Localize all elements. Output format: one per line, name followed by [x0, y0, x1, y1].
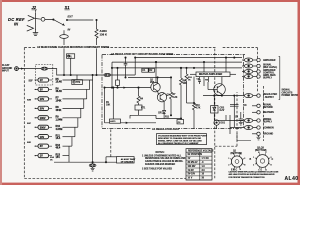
svg-text:1V: 1V [40, 79, 43, 82]
svg-text:A2 MAIN FRAME CHASSIS MOUNTED: A2 MAIN FRAME CHASSIS MOUNTED COMPONENT … [37, 45, 110, 49]
svg-text:2: 2 [228, 164, 229, 166]
svg-text:CR1: CR1 [158, 112, 163, 114]
svg-text:EXT: EXT [68, 14, 74, 18]
svg-text:S2F: S2F [29, 81, 34, 83]
svg-text:SIGNAL: SIGNAL [263, 64, 272, 67]
svg-text:FOR PROPER TRANSISTOR CONNECTI: FOR PROPER TRANSISTOR CONNECTION [229, 176, 266, 179]
svg-text:REGULATED: REGULATED [263, 93, 277, 96]
svg-text:1V: 1V [40, 155, 43, 158]
svg-text:S2B: S2B [27, 100, 32, 102]
svg-text:1: 1 [228, 158, 229, 160]
svg-text:3: 3 [244, 158, 245, 160]
svg-text:FARADS UNLESS MARKED: FARADS UNLESS MARKED [145, 163, 175, 166]
svg-text:A1 REGULATOR ASSY: A1 REGULATOR ASSY [152, 127, 180, 131]
svg-text:10V: 10V [40, 98, 45, 101]
svg-text:POWER DISTR: POWER DISTR [282, 95, 299, 97]
svg-text:RT1: RT1 [141, 108, 146, 110]
svg-text:(BOTTOM): (BOTTOM) [231, 153, 243, 155]
svg-text:2.2K: 2.2K [173, 97, 178, 99]
svg-text:A1 REGULATOR CKT CIRCUIT BOARD: A1 REGULATOR CKT CIRCUIT BOARD ASSY 0875… [111, 52, 174, 56]
svg-text:2: 2 [253, 164, 254, 166]
svg-text:OF CHASSIS: OF CHASSIS [121, 160, 134, 163]
svg-text:10V: 10V [40, 136, 45, 139]
svg-text:ALL READINGS TAKEN AT 25 C AMB: ALL READINGS TAKEN AT 25 C AMBIENT [158, 142, 199, 145]
svg-text:S2D: S2D [27, 142, 32, 144]
svg-text:VOLTAGES MEASURED WITH VTVM FR: VOLTAGES MEASURED WITH VTVM FROM POINT [158, 134, 207, 137]
svg-text:46.4K: 46.4K [56, 90, 63, 93]
svg-text:SUPPLY: SUPPLY [263, 122, 272, 124]
svg-text:1 UNLESS OTHERWISE NOTED ALL: 1 UNLESS OTHERWISE NOTED ALL [142, 154, 182, 157]
svg-text:AND LEAD POSITION AS SHOWN IN: AND LEAD POSITION AS SHOWN IN DIAGRAM AB… [229, 173, 276, 176]
svg-text:3V: 3V [40, 145, 43, 148]
svg-text:DS1: DS1 [221, 123, 226, 125]
svg-text:30V: 30V [40, 107, 45, 110]
svg-text:46.4: 46.4 [56, 147, 61, 150]
svg-text:CAUTION: WHEN REPLACING Q2 OBS: CAUTION: WHEN REPLACING Q2 OBSERVE COLOR… [229, 171, 280, 174]
svg-text:AMPLIFIER: AMPLIFIER [263, 59, 276, 62]
svg-text:COMMON: COMMON [263, 127, 274, 129]
svg-text:300V: 300V [40, 126, 46, 129]
svg-text:154: 154 [56, 156, 61, 159]
svg-text:2 SEE TABLE FOR VALUES: 2 SEE TABLE FOR VALUES [142, 168, 172, 171]
svg-text:IN: IN [68, 27, 71, 31]
svg-text:15.4K: 15.4K [56, 81, 63, 84]
svg-text:3V-10V: 3V-10V [188, 174, 196, 176]
svg-text:S2C: S2C [27, 123, 32, 125]
svg-text:RETURN: RETURN [263, 107, 273, 109]
svg-text:AMPL BIAS: AMPL BIAS [263, 74, 276, 77]
svg-text:1V-3V: 1V-3V [188, 170, 195, 172]
svg-text:(BOTTOM): (BOTTOM) [255, 150, 267, 152]
svg-text:154K: 154K [56, 99, 62, 102]
svg-text:HEATERS: HEATERS [263, 111, 274, 114]
svg-text:S1: S1 [65, 5, 71, 10]
svg-text:CAPACITANCE VALUES IN MICRO-: CAPACITANCE VALUES IN MICRO- [145, 160, 183, 163]
svg-text:J2: J2 [32, 5, 37, 10]
svg-text:4.7K: 4.7K [196, 106, 201, 109]
svg-text:1V: 1V [188, 158, 191, 160]
svg-text:AMPLIFIER: AMPLIFIER [263, 69, 276, 72]
svg-text:30 MV-1V: 30 MV-1V [188, 162, 199, 164]
svg-text:TP1: TP1 [68, 56, 73, 58]
svg-text:10K: 10K [183, 83, 188, 85]
svg-text:METER AMPLIFIER: METER AMPLIFIER [199, 72, 222, 76]
svg-text:15.4: 15.4 [56, 137, 61, 140]
svg-text:GROUND: GROUND [263, 134, 274, 136]
svg-text:NOTES:: NOTES: [156, 151, 165, 154]
svg-text:4.64M: 4.64M [56, 128, 63, 131]
svg-text:RESISTANCE VALUES IN OHMS AND: RESISTANCE VALUES IN OHMS AND [145, 157, 186, 160]
svg-text:SIGNAL INPUT. LINE VOLTAGE 115: SIGNAL INPUT. LINE VOLTAGE 115 VAC AND [158, 140, 202, 143]
svg-text:FLOAT: FLOAT [2, 64, 10, 67]
svg-text:SUPPLY: SUPPLY [263, 78, 272, 80]
svg-text:+ SUPPLY: + SUPPLY [263, 97, 274, 99]
svg-text:1: 1 [253, 157, 254, 159]
svg-text:AL40: AL40 [285, 176, 299, 182]
svg-text:TP2: TP2 [76, 82, 81, 84]
svg-text:R11: R11 [165, 117, 170, 119]
svg-text:136 K: 136 K [100, 33, 107, 37]
svg-text:10K: 10K [106, 105, 111, 107]
svg-text:1 V DC: 1 V DC [202, 158, 210, 160]
svg-text:100V: 100V [40, 117, 46, 120]
svg-text:S2 POSITION: S2 POSITION [188, 154, 203, 156]
svg-text:464K: 464K [56, 109, 62, 112]
svg-text:INDICATED TO CHASSIS GROUND WI: INDICATED TO CHASSIS GROUND WITH NO [158, 137, 202, 140]
svg-text:SIGNAL: SIGNAL [282, 89, 291, 92]
svg-text:10 V: 10 V [188, 178, 193, 180]
svg-text:SIGNAL: SIGNAL [263, 103, 272, 106]
svg-text:1.54M: 1.54M [56, 118, 63, 121]
svg-text:CIRCUITS: CIRCUITS [282, 92, 293, 94]
svg-text:2N3: 2N3 [150, 82, 155, 84]
svg-text:3V: 3V [40, 89, 43, 92]
svg-text:100 MV: 100 MV [188, 166, 196, 168]
svg-text:(REF LEVEL): (REF LEVEL) [263, 67, 277, 69]
svg-text:6.2V: 6.2V [220, 110, 225, 112]
svg-text:INPUT: INPUT [2, 70, 9, 72]
svg-text:REFERENCE VOLTAGE: REFERENCE VOLTAGE [188, 149, 214, 152]
svg-text:A2C1: A2C1 [110, 120, 116, 123]
